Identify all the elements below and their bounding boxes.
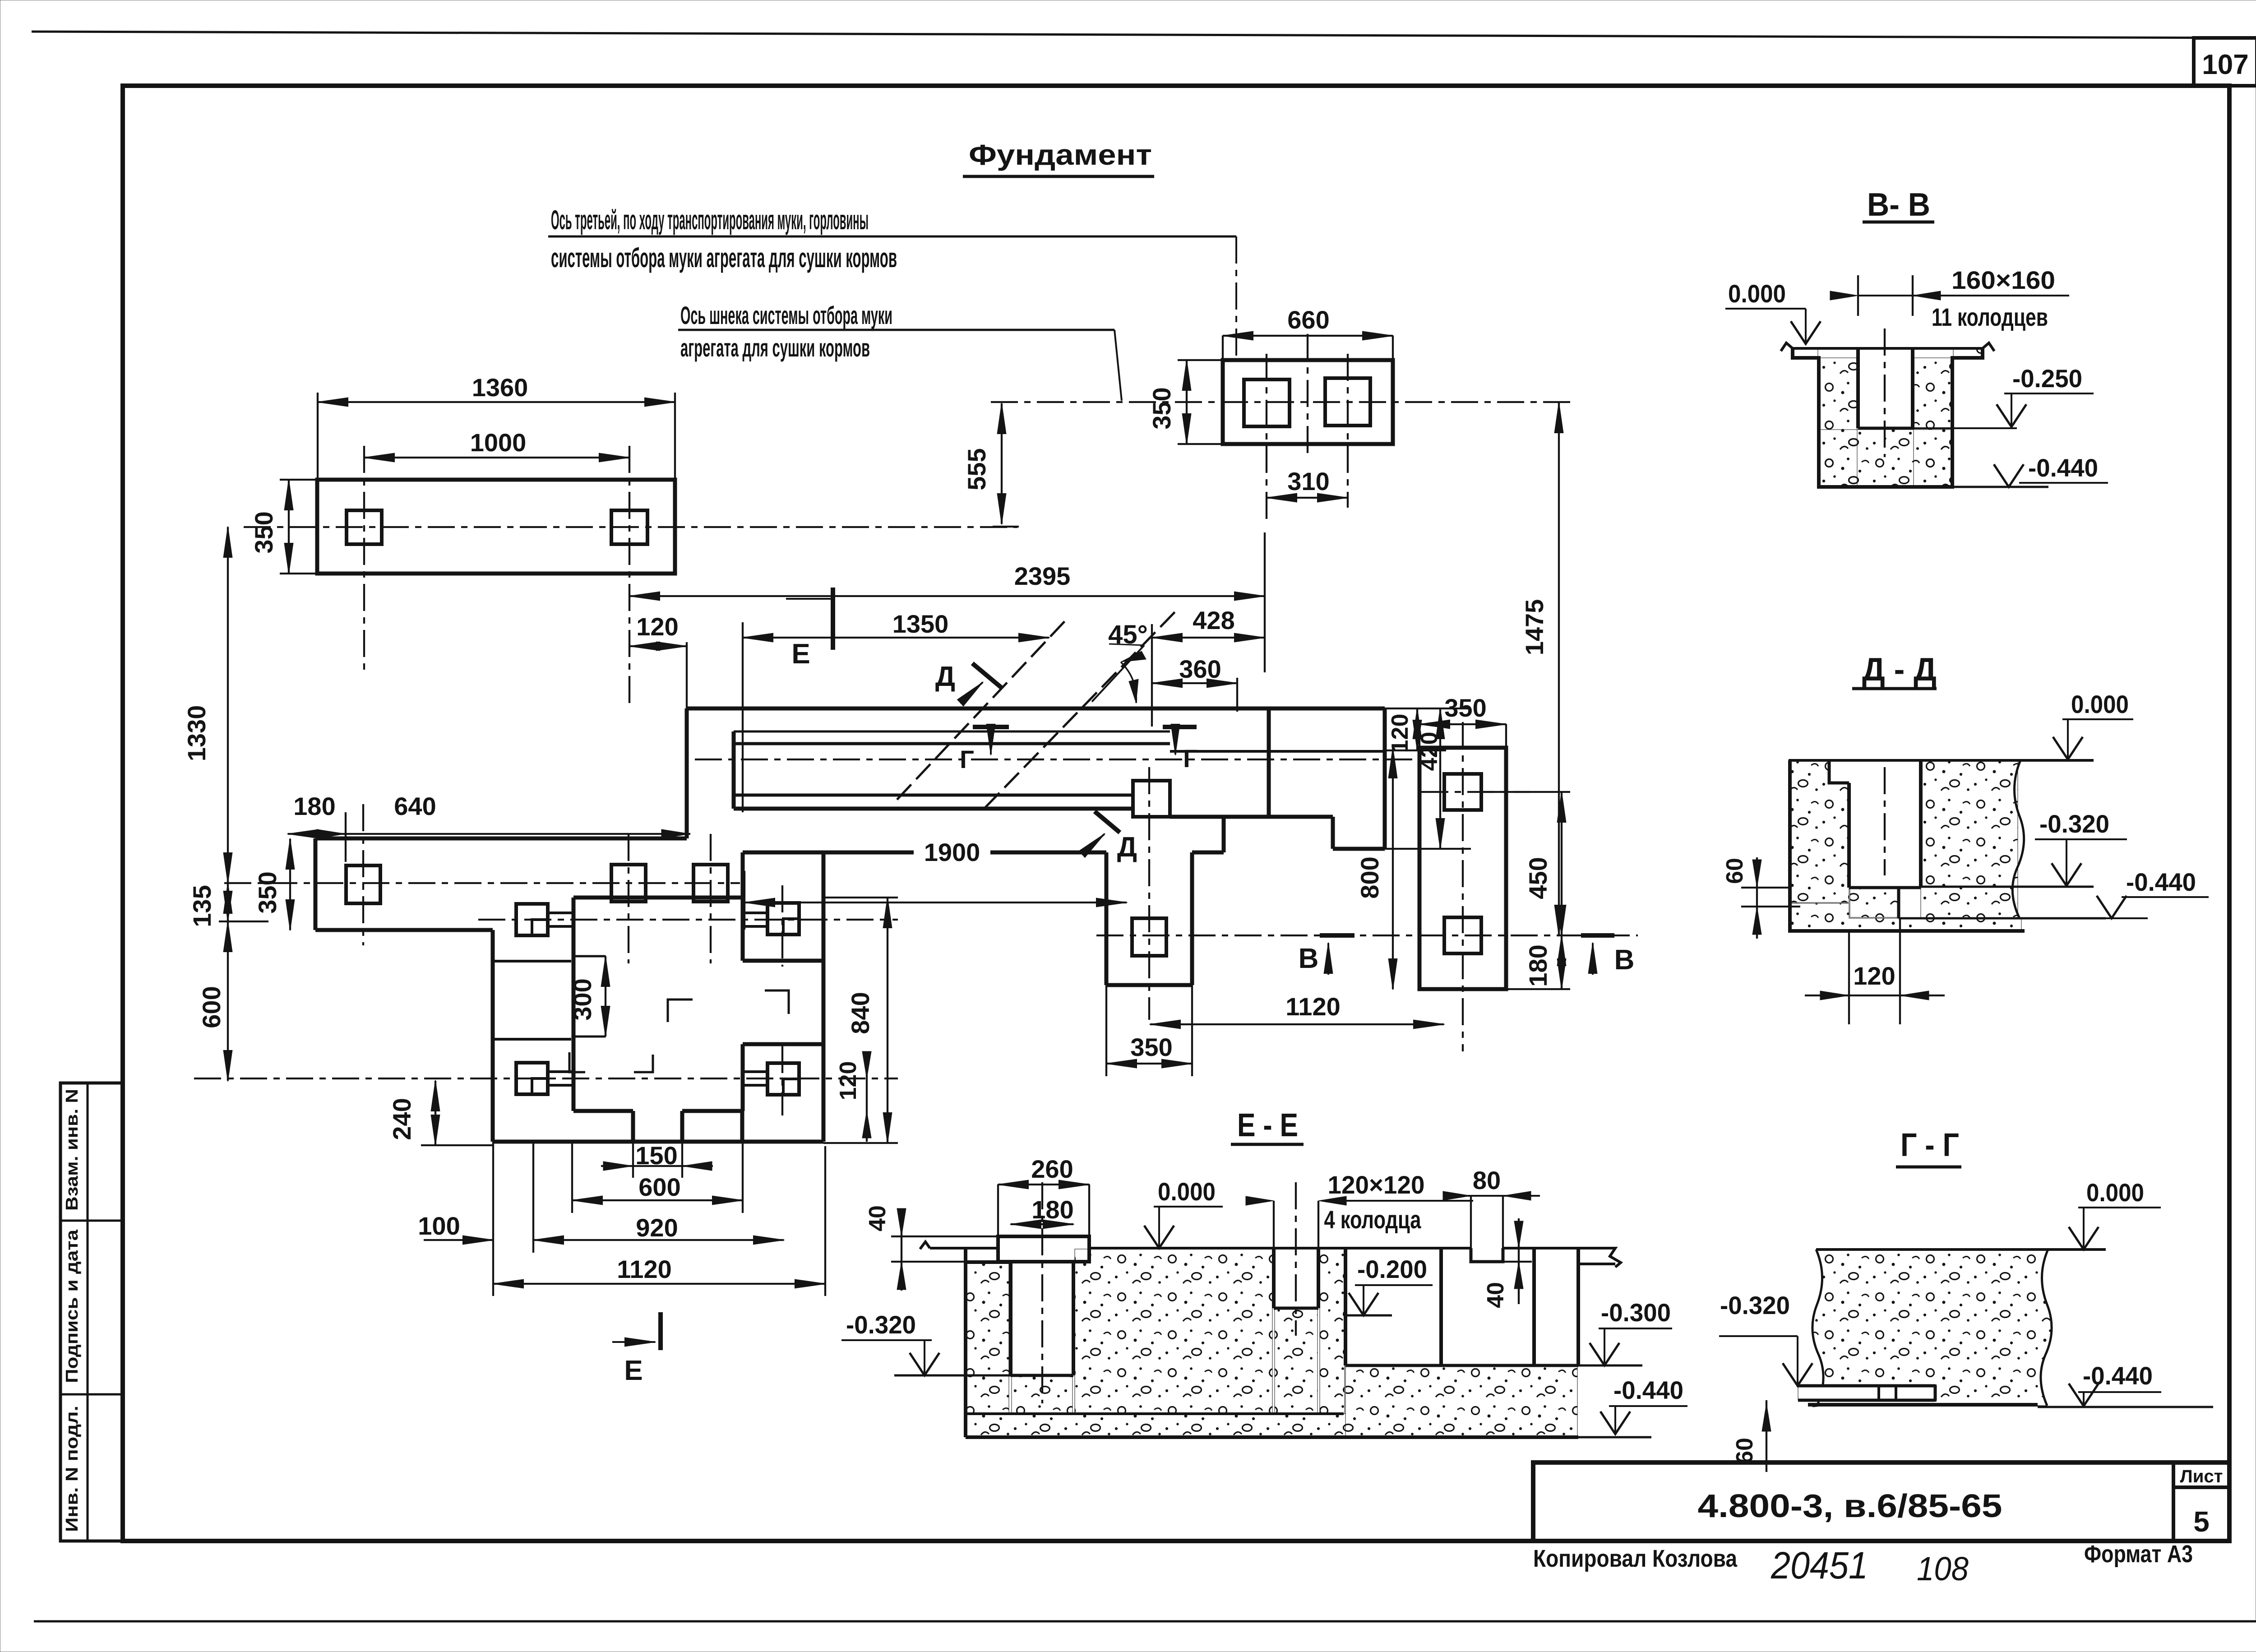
- EE level -0.300 arrow: [1590, 1343, 1619, 1365]
- svg-text:4 колодца: 4 колодца: [1324, 1205, 1422, 1234]
- view mark G left arrow: [990, 728, 992, 754]
- slab pocket line upper: [493, 960, 571, 963]
- title underline: [963, 175, 1154, 178]
- top bolt well 1: [611, 865, 646, 902]
- section mark E top bar: [831, 588, 835, 650]
- BB well centerline: [1884, 329, 1886, 457]
- BB bottom ref line: [1952, 486, 2048, 488]
- bolt group upper right square: [767, 903, 799, 935]
- svg-text:350: 350: [1147, 387, 1176, 429]
- svg-text:-0.200: -0.200: [1357, 1255, 1427, 1283]
- dim 180-640 line: [288, 833, 690, 835]
- dim 840 ext top: [823, 897, 898, 898]
- EE ground mid: [1089, 1247, 1471, 1249]
- svg-text:450: 450: [1524, 857, 1552, 899]
- bar inner right line: [1170, 750, 1385, 753]
- bolt group upper right stem: [743, 912, 767, 914]
- DD hatch left wall: [1790, 760, 1849, 902]
- EE level -0.440 drop: [1614, 1406, 1616, 1432]
- main axis B row: [1096, 935, 1638, 936]
- section mark E bottom bar: [658, 1312, 663, 1350]
- dim 180 right ext: [1506, 988, 1570, 990]
- note1 leader axis: [1235, 236, 1237, 359]
- EE well bottom: [1011, 1374, 1073, 1377]
- section mark B right tick: [1581, 933, 1614, 938]
- upper plate anchor well left: [347, 510, 382, 544]
- pedestal step: [741, 852, 745, 898]
- stamp divider 2: [60, 1393, 123, 1396]
- list cell divider horizontal: [2173, 1485, 2229, 1489]
- dim 350 plate line: [289, 839, 291, 930]
- EE level -0.320 drop: [924, 1340, 925, 1374]
- dim 1360 ext right: [674, 393, 676, 480]
- pit inner line top: [573, 955, 606, 958]
- section B-B underline: [1863, 221, 1934, 224]
- dim 1330 line: [227, 527, 229, 883]
- note1 underline: [548, 236, 1236, 238]
- view mark G right tick: [1163, 725, 1197, 729]
- svg-text:11 колодцев: 11 колодцев: [1932, 303, 2048, 331]
- BB concrete left wall: [1820, 358, 1857, 486]
- stamp column inner divider: [87, 1083, 89, 1541]
- dim 920 line: [533, 1239, 784, 1241]
- EE level -0.200 ref: [1347, 1314, 1392, 1317]
- EE level -0.300 drop: [1604, 1328, 1605, 1364]
- svg-text:Е - Е: Е - Е: [1237, 1107, 1298, 1143]
- foundation bar left cap: [732, 731, 736, 809]
- foundation bar top: [687, 707, 1385, 711]
- dim 160x160 line: [1858, 295, 2069, 296]
- dim 80 arrows: [1443, 1191, 1531, 1200]
- svg-text:108: 108: [1917, 1550, 1969, 1587]
- dim 350 neck ext bot: [1178, 443, 1223, 445]
- section mark D top tick: [972, 663, 1003, 689]
- dim 120 upper ext: [686, 642, 688, 708]
- bar axis: [695, 759, 1412, 760]
- EE small well bottom: [1274, 1307, 1318, 1310]
- GG channel end: [1934, 1386, 1937, 1400]
- dim 450 ext: [1481, 791, 1570, 793]
- trench wall line 2: [734, 742, 1170, 745]
- pit corner mark 4: [634, 1055, 653, 1072]
- GG bottom ref line: [2038, 1406, 2213, 1408]
- DD well floor: [1849, 886, 1921, 889]
- svg-text:420: 420: [1416, 732, 1442, 771]
- GG hatch body: [1812, 1249, 2052, 1406]
- svg-text:Фундамент: Фундамент: [969, 139, 1152, 171]
- DD well left wall: [1847, 783, 1851, 888]
- dim 240 ext: [421, 1144, 492, 1146]
- EE well wall left: [1009, 1262, 1012, 1375]
- EE level -0.200 drop: [1363, 1285, 1364, 1314]
- GG ground line: [1816, 1248, 2106, 1251]
- BB hatch lip left: [1794, 349, 1818, 357]
- lower bolt axis: [194, 1078, 898, 1079]
- neck plate hole left: [1244, 379, 1290, 426]
- EE level -0.300 shelf: [1599, 1328, 1672, 1329]
- DD lower level line: [1899, 917, 2106, 920]
- DD step line: [1897, 888, 1900, 918]
- bar divider: [1267, 708, 1271, 817]
- dim 840 ext bottom: [823, 1142, 898, 1144]
- dim 120 rot line: [1416, 708, 1418, 750]
- GG bottom line: [1808, 1403, 2038, 1407]
- dim 240 line: [435, 1081, 436, 1145]
- BB concrete right wall: [1914, 358, 1951, 486]
- DD well centerline: [1884, 767, 1886, 875]
- svg-text:1350: 1350: [892, 610, 949, 638]
- svg-text:840: 840: [846, 992, 874, 1034]
- stamp column outline: [60, 1083, 123, 1541]
- pedestal right drop: [740, 1111, 744, 1142]
- svg-text:1475: 1475: [1520, 599, 1549, 656]
- svg-text:Инв. N подл.: Инв. N подл.: [63, 1406, 82, 1532]
- bolt group lower right square: [767, 1063, 799, 1095]
- section mark E top line: [786, 598, 833, 600]
- angle 45 arc: [1121, 662, 1136, 703]
- BB level -0.440 shelf: [2019, 482, 2108, 484]
- svg-text:Е: Е: [624, 1355, 643, 1386]
- DD hatch bottom: [1790, 903, 2021, 930]
- section mark D bottom tick: [1095, 811, 1120, 833]
- dim 450 line: [1561, 792, 1563, 935]
- dim 660 line: [1223, 335, 1393, 337]
- view mark G left tick: [973, 725, 1009, 729]
- dim 350 right line: [1419, 723, 1506, 725]
- pedestal top edge: [573, 896, 743, 900]
- svg-text:-0.320: -0.320: [1720, 1291, 1790, 1319]
- neck plate hole right: [1325, 378, 1370, 426]
- dim 350 descender ext l: [1105, 985, 1107, 1076]
- BB level -0.440 arrow: [1994, 464, 2024, 487]
- dim 1120 ext right: [824, 1146, 826, 1296]
- DD outline: [1790, 760, 2025, 931]
- lower plate bottom edge: [315, 928, 493, 932]
- dim 600 line: [227, 921, 229, 1081]
- dim 135 ext: [219, 921, 268, 922]
- EE pocket2 right: [1576, 1248, 1580, 1365]
- dim 600 bottom line: [572, 1199, 743, 1201]
- EE level 0.000 drop: [1158, 1207, 1160, 1246]
- top bolt well 2: [693, 865, 728, 902]
- EE well wall right: [1072, 1262, 1075, 1375]
- svg-text:600: 600: [197, 986, 226, 1028]
- svg-text:-0.440: -0.440: [2083, 1361, 2153, 1390]
- svg-text:360: 360: [1179, 655, 1221, 683]
- svg-text:350: 350: [250, 511, 278, 553]
- DD level -0.440 shelf: [2122, 896, 2209, 898]
- slab edge to bar: [1222, 817, 1226, 852]
- dim 1360 line: [318, 401, 675, 403]
- svg-text:20451: 20451: [1771, 1544, 1868, 1587]
- dim 420 rot line: [1439, 708, 1441, 849]
- sheet outer bottom edge: [34, 1620, 2256, 1623]
- svg-text:Копировал Козлова: Копировал Козлова: [1533, 1545, 1738, 1572]
- right plate centerline: [1462, 722, 1464, 1051]
- dim 260 line: [998, 1184, 1089, 1185]
- DD level -0.440 arrow: [2097, 896, 2127, 918]
- slab edge line right: [1192, 851, 1224, 855]
- pocket lower right top: [743, 1042, 823, 1046]
- DD hatch right: [1921, 760, 2018, 917]
- EE pocket1 right: [1439, 1248, 1443, 1365]
- slab bottom edge: [493, 1140, 823, 1144]
- dim 40 EE ext1: [891, 1236, 998, 1237]
- BB level 0.000 drop: [1805, 309, 1807, 343]
- EE level -0.320 ref: [894, 1374, 1011, 1377]
- upper plate horizontal axis: [244, 526, 1017, 528]
- DD level -0.320 drop: [2066, 839, 2067, 884]
- DD level 0.000 shelf: [2062, 718, 2133, 720]
- GG level 0.000 drop: [2083, 1208, 2085, 1247]
- dim 300 line: [605, 956, 606, 1037]
- svg-text:120×120: 120×120: [1328, 1171, 1425, 1199]
- svg-text:агрегата для сушки кормов: агрегата для сушки кормов: [680, 333, 870, 362]
- foundation bar right edge: [1383, 708, 1387, 849]
- EE level 0.000 shelf: [1154, 1206, 1223, 1208]
- svg-text:-0.300: -0.300: [1601, 1298, 1671, 1327]
- svg-text:920: 920: [636, 1213, 678, 1242]
- EE level -0.320 arrow: [910, 1353, 939, 1375]
- section mark B right arrow: [1592, 943, 1594, 975]
- svg-text:640: 640: [394, 792, 436, 820]
- EE hatch under small well: [1275, 1309, 1318, 1414]
- descender anchor centerline: [1148, 767, 1150, 1020]
- svg-text:-0.250: -0.250: [2012, 364, 2082, 393]
- GG level -0.320 shelf: [1719, 1335, 1798, 1337]
- dim 310 line: [1267, 497, 1348, 499]
- ext 120 EE l: [1273, 1201, 1275, 1248]
- EE level 0.000 arrow: [1144, 1226, 1174, 1248]
- GG channel box small: [1879, 1386, 1896, 1400]
- foundation bar step: [1331, 817, 1335, 849]
- section mark B left arrow: [1327, 943, 1329, 975]
- descender anchor well: [1132, 918, 1166, 956]
- svg-text:40: 40: [1483, 1282, 1509, 1308]
- svg-text:-0.440: -0.440: [2126, 868, 2196, 896]
- GG channel white: [1798, 1386, 1935, 1400]
- EE hatch bottom slab right: [1345, 1365, 1577, 1436]
- dim 80 ext r: [1502, 1196, 1504, 1250]
- dim 1350 line: [743, 637, 1049, 639]
- EE level -0.440 arrow: [1600, 1411, 1630, 1434]
- svg-text:80: 80: [1473, 1166, 1501, 1194]
- svg-text:Взам. инв. N: Взам. инв. N: [63, 1089, 82, 1211]
- EE level -0.320 shelf: [841, 1339, 932, 1341]
- descender left edge: [1105, 852, 1109, 985]
- GG level -0.440 arrow: [2069, 1384, 2099, 1406]
- dim 350 right ext r: [1505, 724, 1507, 748]
- svg-text:60: 60: [1722, 858, 1748, 884]
- bolt group lower right stem: [743, 1070, 767, 1073]
- right plate outline: [1419, 748, 1506, 989]
- svg-text:0.000: 0.000: [2086, 1178, 2144, 1207]
- cut line D 2: [985, 609, 1178, 808]
- GG level 0.000 arrow: [2069, 1227, 2099, 1249]
- dim 555 line: [1001, 403, 1003, 524]
- EE hatch under well: [1012, 1376, 1073, 1414]
- BB hatch lip right: [1953, 349, 1981, 357]
- svg-text:-0.320: -0.320: [846, 1310, 916, 1339]
- pedestal notch left: [631, 1111, 635, 1142]
- neck plate outline: [1223, 360, 1393, 444]
- svg-text:150: 150: [635, 1141, 677, 1170]
- lower plate anchor centerline: [362, 804, 364, 945]
- GG channel box large: [1896, 1386, 1935, 1400]
- cut line D 1: [897, 617, 1068, 800]
- line 120x120: [1333, 1200, 1473, 1202]
- dim 1900 ext: [744, 871, 745, 930]
- BB ground line: [1781, 343, 1994, 351]
- sheet outer top edge: [32, 32, 2256, 38]
- dim 180-640 mid arrow: [317, 829, 346, 838]
- GG level 0.000 shelf: [2078, 1207, 2161, 1208]
- GG level -0.320 drop: [1797, 1336, 1798, 1384]
- EE bottom slab line: [966, 1435, 1578, 1439]
- lower plate left edge: [314, 838, 318, 930]
- trench wall line 1: [734, 731, 1170, 733]
- dim 150 ext right: [681, 1142, 683, 1178]
- svg-text:180: 180: [1031, 1195, 1073, 1224]
- pit corner mark 2: [765, 990, 789, 1014]
- dim 428 ext: [1264, 532, 1266, 672]
- svg-text:120: 120: [835, 1061, 861, 1101]
- dim 180 EE line: [1011, 1223, 1073, 1225]
- dim 100 line: [424, 1239, 493, 1241]
- EE level -0.200 shelf: [1355, 1284, 1433, 1286]
- EE hatch wall: [966, 1262, 1009, 1414]
- dim 260 ext l: [997, 1185, 999, 1236]
- BB level 0.000 arrow: [1791, 321, 1821, 344]
- dim 150 ext left: [632, 1142, 634, 1178]
- EE hatch main: [1075, 1249, 1272, 1414]
- svg-text:1900: 1900: [924, 838, 980, 866]
- DD notch: [1829, 760, 1849, 783]
- svg-text:1000: 1000: [470, 428, 527, 457]
- svg-text:-0.440: -0.440: [1613, 1376, 1683, 1404]
- svg-text:-0.440: -0.440: [2028, 453, 2098, 482]
- dim 160x160 ext l: [1857, 275, 1859, 316]
- dim 60 DD line: [1756, 857, 1758, 939]
- svg-text:240: 240: [388, 1098, 416, 1140]
- lower plate anchor well: [346, 865, 380, 903]
- dim 150 arrows: [603, 1161, 712, 1171]
- pocket upper right top: [743, 959, 823, 963]
- svg-text:Лист: Лист: [2180, 1467, 2223, 1486]
- arrows 120 EE: [1246, 1196, 1346, 1205]
- svg-text:Е: Е: [791, 639, 810, 670]
- svg-text:800: 800: [1355, 856, 1384, 898]
- DD level 0.000 drop: [2067, 719, 2069, 758]
- dim 360 line: [1152, 682, 1237, 684]
- svg-text:60: 60: [1732, 1438, 1758, 1464]
- dim 120 DD ext r: [1899, 918, 1901, 1024]
- EE left wall outer: [964, 1262, 967, 1437]
- title block outline: [1533, 1462, 2229, 1541]
- upper plate left anchor centerline: [363, 446, 365, 672]
- svg-text:В: В: [1614, 944, 1635, 976]
- dim 350 neck ext top: [1178, 359, 1223, 361]
- EE right lip: [1578, 1248, 1621, 1267]
- svg-text:Ось шнека системы отбора муки: Ось шнека системы отбора муки: [680, 301, 892, 329]
- dim 260 ext r: [1088, 1185, 1090, 1236]
- dim 40 right line: [1518, 1218, 1520, 1304]
- EE hatch bottom slab left: [966, 1414, 1345, 1436]
- slab right edge: [822, 852, 826, 1142]
- svg-text:1360: 1360: [472, 373, 528, 402]
- DD hatch under well: [1850, 888, 1898, 917]
- BB concrete below well: [1820, 430, 1951, 486]
- ext 120 EE r: [1318, 1201, 1319, 1248]
- upper bolt axis: [478, 919, 898, 921]
- dim 40 EE line: [901, 1209, 902, 1291]
- angle 45 ext line: [1151, 624, 1153, 727]
- DD level 0.000 arrow: [2053, 737, 2083, 759]
- GG wavy right edge: [2041, 1249, 2052, 1406]
- svg-text:Г: Г: [960, 745, 974, 773]
- dim 1360 ext left: [317, 393, 319, 480]
- svg-text:Г: Г: [1183, 744, 1197, 773]
- GG level -0.320 arrow: [1783, 1363, 1812, 1386]
- dim 80 ext l: [1470, 1196, 1472, 1250]
- pedestal bottom right: [682, 1109, 742, 1113]
- svg-text:600: 600: [638, 1173, 680, 1201]
- dim 360 ext: [1236, 678, 1238, 712]
- dim 60 DD ext1: [1741, 887, 1791, 888]
- pedestal bottom left: [573, 1109, 633, 1113]
- svg-text:100: 100: [418, 1212, 460, 1240]
- svg-text:1120: 1120: [617, 1255, 672, 1283]
- BB level -0.250 drop: [2011, 393, 2012, 427]
- dim 2395 line: [629, 595, 1265, 597]
- note2 leader: [1114, 330, 1122, 401]
- pocket upper right wall: [741, 898, 745, 961]
- section mark B left tick: [1320, 933, 1355, 938]
- upper plate anchor well right: [611, 510, 647, 544]
- svg-text:0.000: 0.000: [1158, 1177, 1216, 1206]
- neck hole right centerline: [1347, 354, 1349, 508]
- dim 1120 ext left: [492, 1142, 494, 1296]
- right plate well top: [1444, 774, 1481, 810]
- EE level -0.300 ref: [1578, 1365, 1642, 1367]
- dim 150 line: [601, 1165, 713, 1167]
- right plate upper well axis: [1421, 791, 1530, 793]
- svg-text:310: 310: [1287, 467, 1329, 495]
- dim 420 rot ext bot: [1385, 848, 1471, 850]
- dim 120 rot ext: [1385, 750, 1446, 751]
- dim 600 ext right: [742, 1142, 744, 1213]
- dim 80 line: [1452, 1195, 1540, 1197]
- dim 120 DD ext l: [1848, 931, 1850, 1024]
- DD wavy break: [2012, 760, 2024, 918]
- BB level -0.250 arrow: [1997, 404, 2026, 427]
- dim 350 descender line: [1106, 1063, 1192, 1064]
- svg-text:120: 120: [636, 612, 678, 641]
- slab left edge: [491, 930, 495, 1142]
- dim 428 line: [1152, 637, 1265, 639]
- DD level -0.440 ref ext: [2106, 917, 2148, 919]
- EE notch: [1471, 1248, 1503, 1262]
- foundation bar right bottom: [1333, 847, 1385, 851]
- neck hole left centerline: [1266, 354, 1267, 523]
- svg-text:1120: 1120: [1285, 992, 1341, 1021]
- pit inner line bottom: [573, 1036, 606, 1038]
- BB flange left: [1793, 348, 1983, 487]
- svg-text:Д: Д: [1117, 832, 1137, 863]
- DD level -0.320 arrow: [2052, 863, 2081, 886]
- foundation bar bottom left: [734, 807, 1133, 811]
- slab edge line: [743, 851, 914, 855]
